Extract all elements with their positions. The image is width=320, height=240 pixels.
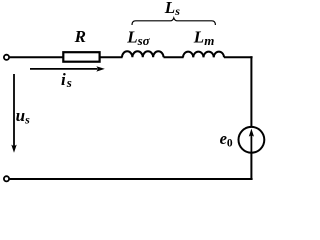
wire terminal to resistor bbox=[10, 56, 64, 58]
svg-text:Ls: Ls bbox=[164, 0, 180, 18]
terminal top-left bbox=[4, 55, 9, 60]
svg-text:Lm: Lm bbox=[193, 27, 215, 47]
u_s arrow bbox=[13, 74, 15, 147]
i_s arrow bbox=[30, 68, 98, 70]
svg-text:R: R bbox=[74, 27, 86, 46]
svg-text:e0: e0 bbox=[220, 129, 233, 150]
svg-text:is: is bbox=[61, 70, 72, 90]
wire right vertical bottom bbox=[250, 153, 252, 180]
svg-text:Lsσ: Lsσ bbox=[126, 27, 150, 47]
source e0 circle bbox=[239, 127, 265, 153]
overbrace L_s bbox=[132, 18, 215, 25]
wire resistor to Lso bbox=[100, 56, 123, 58]
source arrow bbox=[250, 134, 252, 152]
terminal bottom-left bbox=[4, 176, 9, 181]
bottom wire bbox=[10, 178, 253, 180]
resistor R bbox=[63, 52, 99, 62]
wire right vertical top bbox=[250, 56, 252, 127]
wire Lm to corner bbox=[224, 56, 253, 58]
inductor L_so bbox=[122, 51, 164, 57]
wire Lso to Lm bbox=[164, 56, 184, 58]
svg-text:us: us bbox=[16, 106, 30, 126]
inductor L_m bbox=[183, 52, 224, 58]
